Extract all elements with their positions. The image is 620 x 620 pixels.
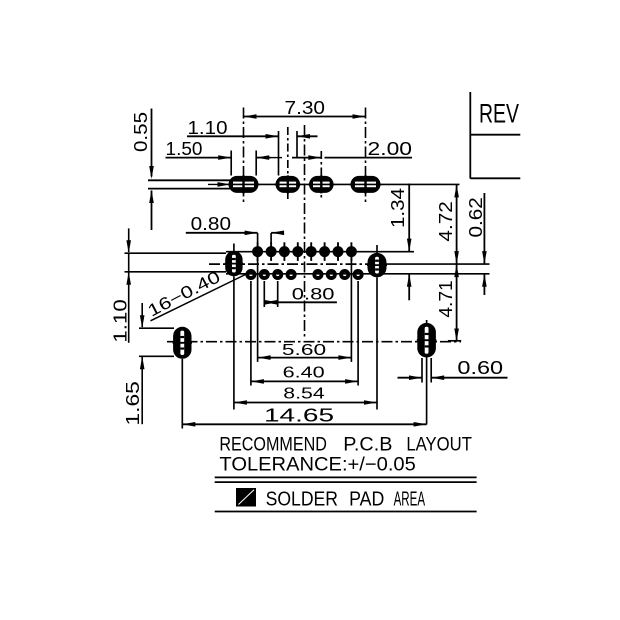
wire: top pad row centerline xyxy=(231,183,460,185)
dimension 4.72 line xyxy=(456,184,458,264)
solder pad: middle-right oval xyxy=(367,253,387,277)
wire: top slot upper edge line xyxy=(148,179,231,181)
dimension 1.34 line xyxy=(408,184,410,252)
rule under notes 2 xyxy=(215,481,477,483)
solder pad P3 (oval 1.10 wide) xyxy=(308,175,335,193)
dimension 0.80 top extension lines xyxy=(257,233,259,243)
svg-text:0.80: 0.80 xyxy=(191,213,231,234)
top row: 8 drill holes 0.40 (filled pads with centerlines) xyxy=(252,242,357,261)
svg-text:PAD: PAD xyxy=(349,487,384,510)
dimension 8.54 line xyxy=(234,402,377,404)
svg-text:8.54: 8.54 xyxy=(283,385,325,402)
node: middle horizontal centerline xyxy=(209,263,386,265)
wire: top slot lower edge line xyxy=(148,188,231,190)
bottom row: 8 drill holes 0.40 (ring pads) xyxy=(247,271,361,278)
svg-text:0.62: 0.62 xyxy=(466,197,486,237)
node: bottom ovals horizontal centerline xyxy=(167,341,461,343)
solder pad: bottom-left oval xyxy=(173,327,192,359)
node: centerline tick right of bottom ovals xyxy=(448,340,461,342)
svg-text:5.60: 5.60 xyxy=(282,342,326,359)
dimension 4.71 line xyxy=(456,264,458,341)
dimension 0.80 top line xyxy=(186,232,258,234)
dimension 1.10 line xyxy=(187,135,279,137)
dimension 0.60 line xyxy=(398,377,423,379)
svg-text:4.71: 4.71 xyxy=(436,280,456,317)
svg-text:6.40: 6.40 xyxy=(283,364,325,381)
solder pad P2 (oval 1.10 wide) xyxy=(275,175,302,193)
dimension 0.80 bottom line xyxy=(264,301,337,303)
svg-text:0.60: 0.60 xyxy=(457,358,503,378)
node: stub above middle-left oval xyxy=(233,244,235,252)
node: stub above middle-right oval xyxy=(376,245,378,253)
title block row line 1 xyxy=(470,134,520,136)
rule under notes 1 xyxy=(215,476,477,478)
node: centerline of pad P2 xyxy=(287,127,289,199)
svg-text:7.30: 7.30 xyxy=(285,97,326,118)
dimension 7.30 line xyxy=(244,116,366,118)
svg-text:1.10: 1.10 xyxy=(110,299,130,343)
leader arrow to pad P1 left edge xyxy=(208,183,228,185)
dimension 1.50 line xyxy=(166,157,232,159)
dimension 14.65 line xyxy=(182,423,426,425)
dimension 8.54 extension line left xyxy=(233,276,235,409)
node: bottom-left oval centerline extension xyxy=(181,359,183,429)
node: stub above bottom-right oval xyxy=(426,320,428,324)
svg-text:REV: REV xyxy=(479,99,519,129)
svg-text:2.00: 2.00 xyxy=(368,138,413,159)
legend: solder pad area swatch xyxy=(236,488,256,507)
dimension 1.10 extension lines xyxy=(278,131,280,176)
dimension 5.60 extension lines xyxy=(257,257,259,362)
node: bottom-right oval centerline extension xyxy=(426,358,428,425)
wire: row line B through bottom hole row xyxy=(226,273,490,275)
svg-text:LAYOUT: LAYOUT xyxy=(406,434,472,456)
svg-text:1.50: 1.50 xyxy=(166,138,203,159)
dimension 0.80 bottom extension lines xyxy=(263,281,265,307)
svg-text:SOLDER: SOLDER xyxy=(266,487,338,510)
svg-text:0.80: 0.80 xyxy=(292,284,335,303)
svg-text:1.65: 1.65 xyxy=(123,381,143,426)
node: centerline of pad P3 xyxy=(320,151,322,199)
solder pad P4 (oval 1.50 wide) xyxy=(350,175,382,193)
dimension 6.40 extension lines xyxy=(250,281,252,386)
dimension 1.65 line xyxy=(141,303,143,327)
svg-text:0.55: 0.55 xyxy=(130,112,151,152)
dimension 1.50 extension lines xyxy=(230,151,232,176)
dimension 8.54 extension line right xyxy=(376,277,378,409)
svg-text:1.34: 1.34 xyxy=(388,188,408,228)
svg-text:TOLERANCE:+/−0.05: TOLERANCE:+/−0.05 xyxy=(219,454,416,476)
node: centerline of pad P1 xyxy=(243,108,245,205)
svg-text:P.C.B: P.C.B xyxy=(343,434,392,456)
wire: row line B left (bottom tangent) xyxy=(125,271,227,273)
dimension 1.10 left line xyxy=(128,228,130,252)
node: vertical centerline of drawing xyxy=(304,125,306,337)
solder pad: middle-left oval xyxy=(225,251,243,276)
svg-text:AREA: AREA xyxy=(394,487,426,510)
dimension 6.40 line xyxy=(251,380,358,382)
rule under legend xyxy=(215,511,477,513)
dimension 2.00 line xyxy=(292,157,321,159)
dimension 0.55 line xyxy=(151,109,153,177)
title block row line 2 xyxy=(470,177,520,179)
dimension 0.62 line xyxy=(483,193,485,264)
svg-text:RECOMMEND: RECOMMEND xyxy=(219,434,327,456)
title block vertical line xyxy=(469,92,471,179)
svg-text:14.65: 14.65 xyxy=(264,405,334,425)
wire: row line A left (top tangent) xyxy=(125,252,227,254)
dimension 1.65 extension lines xyxy=(139,327,174,329)
wire: row line A through top hole row xyxy=(226,251,414,253)
solder pad: bottom-right oval xyxy=(417,323,437,358)
leader line for 16-0.40 callout xyxy=(151,274,248,321)
solder pad P1 (oval 1.50 wide) xyxy=(228,175,260,193)
svg-text:1.10: 1.10 xyxy=(188,117,228,138)
svg-text:4.72: 4.72 xyxy=(436,201,456,241)
dimension 0.60 extension lines xyxy=(421,358,423,383)
dimension 5.60 line xyxy=(258,357,352,359)
node: centerline of pad P4 xyxy=(365,108,367,205)
